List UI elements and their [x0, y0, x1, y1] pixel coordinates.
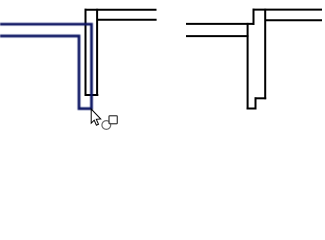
wall right edge	[264, 9, 266, 100]
wall left edge	[247, 23, 249, 110]
cursor arrow	[91, 109, 101, 125]
cursor badge square	[109, 116, 117, 124]
left wall top edge line	[186, 23, 255, 25]
wall second edge line	[97, 19, 157, 21]
left wall bottom edge line	[186, 35, 249, 37]
short vertical jog	[253, 9, 255, 25]
wall second edge line	[265, 19, 322, 21]
selected wall outline	[0, 24, 92, 108]
cursor badge circle	[102, 121, 111, 130]
left figure: vertical wall (black outline)	[85, 9, 157, 96]
wall bottom end cap	[247, 108, 257, 110]
left figure: selected wall (blue highlight L-shape)	[0, 24, 92, 108]
wall right edge	[96, 9, 98, 96]
wall bottom end cap	[85, 94, 99, 96]
bottom step vertical	[255, 97, 257, 109]
bottom step horizontal	[255, 97, 267, 99]
right figure: joined walls (black outline)	[186, 9, 322, 110]
wall left edge	[85, 9, 87, 96]
black wall edge overlay at blue crossing	[85, 21, 87, 29]
wall top edge line	[253, 9, 323, 11]
wall top edge line	[85, 9, 157, 11]
